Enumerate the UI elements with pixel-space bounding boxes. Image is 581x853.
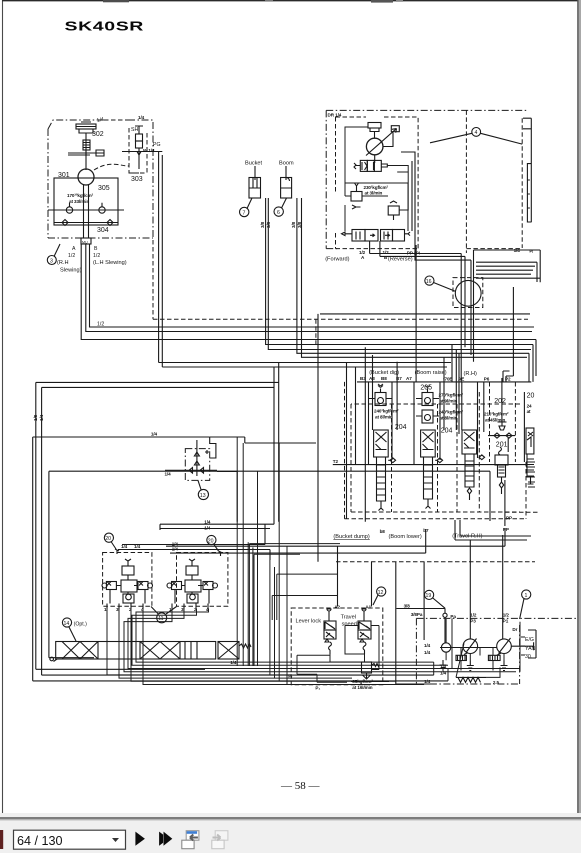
svg-text:(L.H Slewing): (L.H Slewing) xyxy=(93,260,127,266)
svg-text:1/2: 1/2 xyxy=(470,613,477,618)
svg-text:at 9l/min: at 9l/min xyxy=(440,399,458,404)
valve block top edge xyxy=(357,381,531,383)
svg-text:T2: T2 xyxy=(333,459,339,464)
fast-forward button xyxy=(159,832,163,846)
travel A line down to swivel xyxy=(370,254,465,257)
page top edge line xyxy=(2,0,578,2)
pump arrows xyxy=(464,638,511,656)
svg-text:at 3l/min: at 3l/min xyxy=(365,191,383,196)
svg-text:B8: B8 xyxy=(381,376,387,381)
svg-text:305: 305 xyxy=(98,185,110,192)
svg-text:1/2: 1/2 xyxy=(97,322,104,328)
E/G YANMAR bracket xyxy=(521,630,536,658)
page left edge line xyxy=(2,0,4,818)
right assembly dashed box xyxy=(177,553,228,607)
balloon 20 right xyxy=(207,535,216,544)
right-side top bundle corners xyxy=(474,250,541,282)
svg-text:P3: P3 xyxy=(470,619,476,624)
svg-text:at 8l/min: at 8l/min xyxy=(440,416,458,421)
svg-text:1: 1 xyxy=(525,593,528,599)
boom port symbol xyxy=(281,166,292,198)
travel unit right-side pilot lines xyxy=(401,152,415,249)
svg-text:3/8Pa: 3/8Pa xyxy=(411,612,423,617)
svg-text:at 16l/min: at 16l/min xyxy=(352,685,372,690)
balloon 20 left xyxy=(104,533,113,542)
svg-text:Lever lock: Lever lock xyxy=(296,619,322,625)
svg-text:at: at xyxy=(527,409,531,414)
svg-text:Bucket: Bucket xyxy=(245,161,263,167)
main pump P3 xyxy=(463,639,478,654)
valve block outer dashed boundary xyxy=(345,382,527,519)
page right edge line xyxy=(577,0,579,818)
MU box xyxy=(81,238,91,244)
svg-text:W 1/4: W 1/4 xyxy=(143,148,155,153)
spec 240kgf at 8l/min bucket xyxy=(374,409,399,420)
pump unit chain box xyxy=(416,618,576,684)
brake crossbar xyxy=(68,150,104,156)
svg-text:Slewing): Slewing) xyxy=(60,268,82,274)
svg-text:30.: 30. xyxy=(525,654,532,660)
svg-text:2.5: 2.5 xyxy=(493,680,500,685)
block 13 internals xyxy=(165,440,217,476)
svg-text:E/G: E/G xyxy=(525,637,534,643)
svg-text:SH: SH xyxy=(131,127,138,133)
balloon 6 xyxy=(274,207,283,216)
labels 1/4 right bottom bundle xyxy=(230,643,446,684)
svg-text:170¹ºkgf/cm²: 170¹ºkgf/cm² xyxy=(67,193,94,198)
svg-text:20: 20 xyxy=(208,538,214,544)
lever lock solenoid valve xyxy=(324,609,336,654)
svg-text:PP: PP xyxy=(506,516,512,521)
left assembly internals xyxy=(102,549,153,604)
travel relief valve xyxy=(345,183,362,209)
svg-text:1/4: 1/4 xyxy=(39,414,44,421)
spec 270kgf at 9l/min xyxy=(439,393,464,404)
svg-text:1/8: 1/8 xyxy=(33,414,38,421)
boom port relief upper xyxy=(416,386,439,406)
balloon 14 xyxy=(62,618,71,627)
motor M302 head xyxy=(76,122,96,170)
bucket section port relief xyxy=(369,384,392,406)
counterbalance valve pair xyxy=(342,230,411,242)
svg-text:(Forward): (Forward) xyxy=(325,257,349,263)
svg-text:202: 202 xyxy=(494,398,506,405)
spec 35kgf at 16l/min struck xyxy=(352,679,373,690)
svg-text:1/4: 1/4 xyxy=(138,115,145,120)
label E/G YAN 30 xyxy=(525,637,536,660)
boom bus lines xyxy=(297,198,529,357)
svg-text:PP: PP xyxy=(503,527,509,532)
outer box left verticals xyxy=(33,382,42,681)
motor head block xyxy=(368,123,381,139)
svg-text:201: 201 xyxy=(496,442,508,449)
svg-text:240¹kgf/cm²: 240¹kgf/cm² xyxy=(374,409,399,414)
svg-text:1/2: 1/2 xyxy=(68,253,75,259)
valve block right edge hatches xyxy=(526,462,535,487)
balloon 11 xyxy=(157,613,167,623)
box above block 13 xyxy=(33,437,216,458)
shuttle valve 3pos xyxy=(354,160,387,171)
svg-text:270¹kgf/cm²: 270¹kgf/cm² xyxy=(439,393,464,398)
next-view icon (disabled) xyxy=(212,831,228,849)
svg-text:1/4: 1/4 xyxy=(514,248,521,253)
swivel dashed rect xyxy=(453,278,483,308)
svg-text:Pᵢ: Pᵢ xyxy=(529,249,533,254)
right assembly port ticks xyxy=(172,604,208,609)
svg-text:speed: speed xyxy=(342,622,357,628)
inner box xyxy=(49,471,490,658)
svg-text:Travel: Travel xyxy=(341,615,356,621)
swivel through lines xyxy=(461,254,473,382)
previous-view icon xyxy=(182,831,199,849)
leader lines from balloon 4 xyxy=(430,133,522,144)
svg-text:(R.H): (R.H) xyxy=(464,371,477,377)
svg-text:(Bucket dump): (Bucket dump) xyxy=(333,534,370,540)
block 13 chain box xyxy=(185,449,209,481)
balloon 4 xyxy=(472,127,481,136)
svg-text:(Opt.): (Opt.) xyxy=(74,621,88,627)
next page button xyxy=(135,832,145,846)
pump internal wires xyxy=(446,618,504,670)
balloon 16 xyxy=(425,276,434,285)
cut spec text right xyxy=(527,404,532,415)
vertical main pump line x395.8 xyxy=(396,562,434,684)
pilot relief 201 xyxy=(495,447,508,494)
right assembly internals xyxy=(167,551,223,604)
SH pilot valve 303 xyxy=(122,126,154,155)
svg-text:14: 14 xyxy=(64,621,70,627)
svg-text:13: 13 xyxy=(200,493,206,499)
long line y437 extension xyxy=(210,437,316,443)
pilot hose bundle staircase xyxy=(124,609,520,672)
long verticals right of assemblies xyxy=(270,443,287,685)
svg-text:4: 4 xyxy=(475,130,478,136)
shaft lines to ports xyxy=(84,185,89,238)
strainer zigzag xyxy=(456,677,486,682)
svg-text:at 33l/min: at 33l/min xyxy=(69,199,89,204)
inner dashed box travel motor xyxy=(336,117,419,249)
bottom bundle turning to solenoid unit xyxy=(434,622,520,681)
bucket spool xyxy=(374,430,389,511)
spec 230kgf/cm2 at 3l/min xyxy=(364,185,389,196)
boom port relief lower xyxy=(416,410,439,423)
svg-text:A7: A7 xyxy=(406,376,412,381)
pilot line to pump xyxy=(396,608,445,610)
svg-text:1/4: 1/4 xyxy=(230,660,237,665)
svg-text:1/4: 1/4 xyxy=(424,643,431,648)
svg-text:205: 205 xyxy=(420,385,432,392)
port labels row xyxy=(360,376,511,382)
svg-text:12: 12 xyxy=(378,590,384,596)
svg-text:303: 303 xyxy=(131,176,143,183)
divider dashed vertical xyxy=(465,110,467,253)
svg-text:1/2: 1/2 xyxy=(503,613,510,618)
left assembly port ticks xyxy=(107,604,143,609)
svg-text:1/4: 1/4 xyxy=(424,679,431,684)
spec text 170kgf/cm2 at 33l/min xyxy=(67,193,94,204)
balloon 3 xyxy=(47,256,56,265)
travel PP line xyxy=(415,249,471,261)
section feed lines vertical xyxy=(347,245,509,526)
svg-text:230¹kgf/cm²: 230¹kgf/cm² xyxy=(364,185,389,190)
balloon 1 xyxy=(522,590,531,599)
svg-text:1/4: 1/4 xyxy=(151,432,158,437)
svg-text:(Boom lower): (Boom lower) xyxy=(389,534,422,540)
travel port lines down xyxy=(370,241,380,256)
svg-text:7: 7 xyxy=(243,210,246,216)
svg-text:B: B xyxy=(94,246,98,252)
chain outer box travel xyxy=(326,110,529,248)
slewing bus lines xyxy=(81,244,536,340)
svg-text:Dr: Dr xyxy=(512,627,517,632)
motor circle 301 xyxy=(78,169,94,185)
bucket port symbol xyxy=(249,166,261,198)
svg-text:1/2: 1/2 xyxy=(93,253,100,259)
pilot dash line into box xyxy=(94,164,129,170)
spec 240kgf at 8l/min boom xyxy=(439,410,464,421)
svg-text:A: A xyxy=(72,246,76,252)
left assembly dashed box xyxy=(103,553,152,607)
svg-text:240¹kgf/cm²: 240¹kgf/cm² xyxy=(439,410,464,415)
svg-text:1/4: 1/4 xyxy=(165,472,172,477)
check valves row xyxy=(54,220,118,226)
svg-text:20: 20 xyxy=(527,393,535,400)
line from 13 to right drop xyxy=(217,471,237,521)
clipped marks at top edge xyxy=(103,0,403,3)
main pump P1 xyxy=(497,639,512,654)
svg-text:1/4: 1/4 xyxy=(96,117,104,124)
arrow through motor xyxy=(366,129,397,156)
svg-text:3/8: 3/8 xyxy=(260,221,265,228)
svg-text:MU: MU xyxy=(82,241,88,245)
bottom closing lines of boxes xyxy=(33,658,448,681)
check valve pair line xyxy=(488,433,515,438)
svg-text:(Boom raise): (Boom raise) xyxy=(415,370,447,376)
balloon 12 xyxy=(377,587,386,596)
mid-left interconnect horizontals xyxy=(249,544,340,666)
svg-text:302: 302 xyxy=(92,131,104,138)
left box feeder corner xyxy=(154,152,451,525)
svg-text:(Reverse): (Reverse) xyxy=(388,257,413,263)
svg-text:1/4: 1/4 xyxy=(440,671,447,676)
reducing valve small xyxy=(362,662,380,679)
internal dashed verticals between sections xyxy=(316,319,516,512)
bus line PP upper xyxy=(318,314,536,562)
balloon 13 xyxy=(198,489,208,499)
spec 210kgf at 45l/min xyxy=(484,412,509,423)
feed lines down to pumps xyxy=(470,535,502,639)
gear symbols xyxy=(456,655,500,660)
tank symbols xyxy=(440,660,508,671)
svg-text:P6: P6 xyxy=(484,377,490,382)
svg-text:Pᵣ: Pᵣ xyxy=(288,673,293,678)
balloon 7 xyxy=(240,207,249,216)
bucket bus lines xyxy=(266,198,533,350)
svg-text:P2: P2 xyxy=(505,377,511,382)
svg-text:20: 20 xyxy=(105,536,111,542)
relief block box 304/305 xyxy=(54,178,118,225)
balloon 19 xyxy=(425,590,434,599)
line from A1 to top xyxy=(338,546,372,606)
page combo box xyxy=(14,830,126,849)
small box top right xyxy=(391,126,399,132)
vertical bundle through travel pilot xyxy=(107,609,424,685)
svg-text:YAN: YAN xyxy=(525,646,536,652)
right travel partial bracket xyxy=(523,118,531,222)
svg-text:6: 6 xyxy=(277,210,280,216)
lines below valve block xyxy=(166,520,531,640)
relief valves circles xyxy=(48,203,124,213)
svg-text:3/8: 3/8 xyxy=(291,221,296,228)
travel pilot valve body xyxy=(50,642,251,662)
solenoid unit dashed box xyxy=(291,608,383,685)
labels 1/4 above assemblies xyxy=(121,520,211,552)
internal gallery line xyxy=(333,464,530,466)
svg-text:304: 304 xyxy=(97,227,109,234)
boom spool xyxy=(421,430,436,509)
dashed box 303 xyxy=(129,128,147,173)
travel check valve xyxy=(388,201,399,220)
outer box top lines xyxy=(36,382,279,387)
svg-text:at 8l/min: at 8l/min xyxy=(375,415,393,420)
svg-text:210¹kgf/cm²: 210¹kgf/cm² xyxy=(484,412,509,417)
svg-text:(R.H: (R.H xyxy=(57,260,69,266)
motor circle travel xyxy=(366,138,383,155)
toolbar xyxy=(0,813,581,853)
scrollbar gray strip right xyxy=(579,0,581,818)
pilot supply lines above assemblies xyxy=(118,524,270,560)
inner connecting wires travel xyxy=(345,127,408,231)
travel RH spool xyxy=(462,430,477,500)
gear pump small xyxy=(441,643,450,652)
svg-text:24: 24 xyxy=(527,404,532,409)
svg-text:P₁: P₁ xyxy=(315,685,320,690)
svg-text:16: 16 xyxy=(426,279,432,285)
svg-text:1/4: 1/4 xyxy=(424,650,431,655)
svg-text:3: 3 xyxy=(50,258,53,264)
svg-text:204: 204 xyxy=(441,428,453,435)
svg-text:b8: b8 xyxy=(380,529,386,534)
swivel circle xyxy=(455,280,481,306)
svg-text:19: 19 xyxy=(426,593,432,599)
svg-text:A: A xyxy=(361,255,365,260)
svg-text:Boom: Boom xyxy=(279,161,294,167)
partial right section spool xyxy=(524,392,534,487)
enclosure chain-line box slewing unit xyxy=(48,120,153,238)
travel speed solenoid valve xyxy=(358,609,371,654)
main relief valve symbol xyxy=(498,422,507,430)
upper-lower boundary dashed xyxy=(153,240,528,319)
pump shaft line xyxy=(440,642,534,650)
clipped red icon bottom-left xyxy=(0,830,3,849)
svg-text:P1: P1 xyxy=(503,619,509,624)
right top bundle horizontals xyxy=(476,262,540,278)
solenoid internal wires xyxy=(297,621,379,682)
bundle corner drops right-mid xyxy=(237,437,257,620)
right travel dashed box xyxy=(466,118,522,248)
